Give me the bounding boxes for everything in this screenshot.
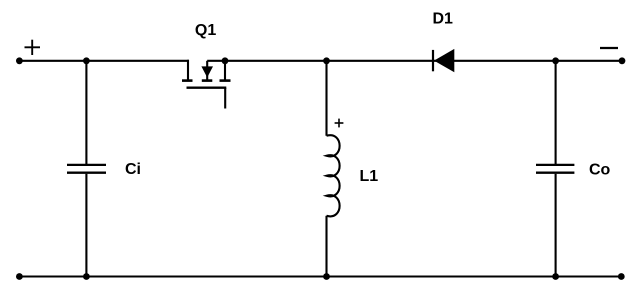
junction dot Co bottom: [552, 273, 559, 280]
junction dot Q1 drain node: [222, 57, 229, 64]
svg-text:Ci: Ci: [125, 161, 141, 178]
node + input terminal symbol: [25, 40, 41, 55]
Ci bottom lead: [85, 174, 87, 277]
Co bottom plate: [536, 172, 574, 174]
L1 top lead: [325, 61, 327, 136]
svg-text:Q1: Q1: [195, 22, 216, 39]
junction dot bottom left terminal: [16, 273, 23, 280]
junction dot Ci bottom: [83, 273, 90, 280]
Co top lead: [555, 61, 557, 164]
junction dot L1 bottom: [323, 273, 330, 280]
L1 polarity + mark: [335, 119, 344, 128]
D1 anode triangle: [434, 49, 454, 72]
node - output terminal symbol: [600, 47, 618, 49]
D1 cathode bar: [432, 50, 434, 71]
L1 coil turns: [327, 135, 340, 216]
transistor Q1: [182, 60, 231, 109]
svg-text:L1: L1: [360, 168, 379, 185]
Q1 drain contact bar: [220, 79, 231, 82]
junction dot L1 top: [323, 57, 330, 64]
junction dot - output terminal: [619, 57, 626, 64]
junction dot Co top: [552, 57, 559, 64]
Co top plate: [536, 164, 574, 166]
wire top rail left segment: [19, 60, 189, 62]
Q1 drain lead: [224, 60, 226, 80]
L1 bottom lead: [325, 216, 327, 277]
Ci top plate: [67, 164, 106, 166]
Co bottom lead: [555, 174, 557, 277]
capacitor Co: [536, 61, 574, 277]
inductor L1: [327, 61, 340, 277]
Q1 gate bar: [187, 86, 227, 88]
svg-text:Co: Co: [589, 162, 611, 179]
svg-text:D1: D1: [432, 11, 453, 28]
Ci top lead: [85, 61, 87, 164]
Q1 body arrow head: [201, 66, 213, 77]
capacitor Ci: [67, 61, 106, 277]
Q1 gate lead: [224, 88, 226, 109]
Q1 source lead: [187, 60, 189, 80]
junction dot input + terminal: [16, 57, 23, 64]
junction dot bottom right terminal: [618, 273, 625, 280]
Q1 source contact bar: [182, 79, 193, 82]
wire top rail right segment: [207, 60, 622, 62]
Q1 body contact bar: [202, 79, 213, 82]
Ci bottom plate: [67, 172, 106, 174]
junction dot Ci top: [83, 57, 90, 64]
Q1 body arrow stem: [206, 61, 208, 80]
diode D1: [433, 49, 454, 72]
wire bottom rail: [19, 275, 621, 277]
